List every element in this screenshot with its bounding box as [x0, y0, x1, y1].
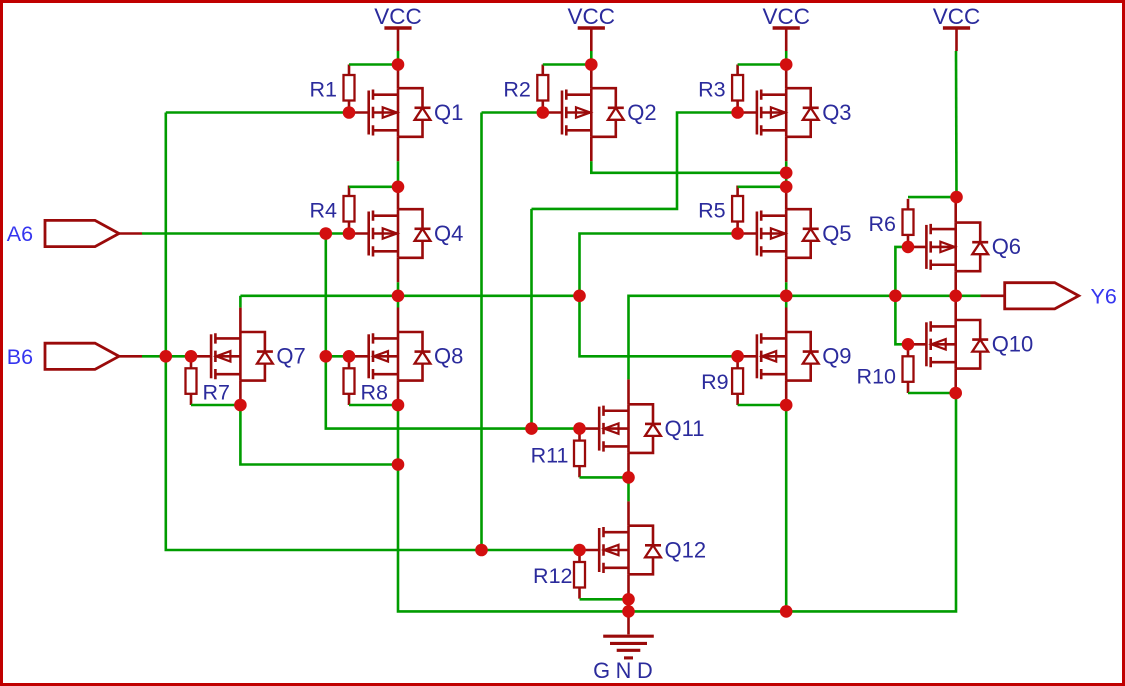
svg-text:Q7: Q7	[276, 344, 305, 369]
svg-text:B6: B6	[7, 345, 33, 369]
svg-text:R8: R8	[361, 380, 389, 404]
svg-text:R3: R3	[698, 78, 726, 102]
svg-text:R12: R12	[533, 564, 572, 588]
svg-text:Q3: Q3	[822, 100, 851, 125]
svg-text:Q2: Q2	[627, 100, 656, 125]
svg-text:Q5: Q5	[822, 221, 851, 246]
svg-text:Q4: Q4	[434, 221, 463, 246]
svg-text:Q10: Q10	[992, 332, 1034, 357]
svg-text:VCC: VCC	[762, 4, 810, 29]
svg-text:R7: R7	[203, 380, 230, 404]
svg-text:A6: A6	[7, 222, 33, 246]
svg-text:Q9: Q9	[822, 344, 851, 369]
svg-text:Q8: Q8	[434, 344, 463, 369]
svg-text:Q6: Q6	[992, 234, 1021, 259]
svg-text:R5: R5	[698, 199, 726, 223]
svg-text:Q1: Q1	[434, 100, 463, 125]
svg-text:R10: R10	[857, 364, 896, 388]
svg-text:Q12: Q12	[665, 537, 707, 562]
svg-text:R9: R9	[701, 370, 728, 394]
svg-text:R6: R6	[869, 212, 897, 236]
svg-text:R2: R2	[503, 78, 530, 102]
svg-text:R1: R1	[310, 78, 337, 102]
svg-text:Q11: Q11	[665, 416, 705, 441]
svg-text:VCC: VCC	[933, 4, 981, 29]
svg-text:Y6: Y6	[1091, 285, 1117, 309]
svg-text:R11: R11	[531, 444, 569, 468]
svg-text:VCC: VCC	[568, 4, 616, 29]
svg-text:R4: R4	[310, 199, 338, 223]
svg-text:GND: GND	[593, 658, 658, 683]
svg-text:VCC: VCC	[374, 4, 422, 29]
